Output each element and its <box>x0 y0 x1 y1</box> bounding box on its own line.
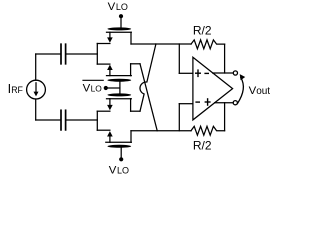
terminal output bottom <box>233 101 237 105</box>
wire top rail (M1 drain to R/2) <box>131 43 191 45</box>
wire output top <box>213 72 234 74</box>
arrow Vout (curved) <box>237 78 243 104</box>
svg-text:V: V <box>83 83 91 95</box>
op-amp U1 (differential) <box>193 57 233 120</box>
transistor M4 (bottom switch, gate to VLO) <box>97 130 131 148</box>
wire IRF bottom <box>35 99 37 120</box>
transistor M1 (top switch, gate to VLO) <box>97 27 131 44</box>
svg-text:R/2: R/2 <box>193 138 212 152</box>
wire IRF to cap C1 <box>36 53 60 55</box>
overline of VLO-bar <box>83 79 103 81</box>
wire bottom rail (M4 drain to R/2) <box>131 130 191 132</box>
resistor R/2 top <box>191 40 225 49</box>
wire M4 gate to VLO bottom <box>120 148 122 159</box>
current source IRF <box>27 80 46 99</box>
wire IRF top <box>35 54 37 80</box>
svg-text:R/2: R/2 <box>193 23 212 37</box>
transistor M2 (upper middle switch, gate to VLO-bar) <box>97 64 140 82</box>
wire bottom rail tap to op-amp input <box>178 104 180 131</box>
svg-text:V: V <box>109 165 117 177</box>
svg-text:V: V <box>108 1 116 13</box>
node VLO top junction dot <box>119 14 123 18</box>
wire diagonal M3 drain to top rail (with hop) <box>140 44 156 111</box>
wire bottom tee (RF- node) <box>96 111 98 130</box>
capacitor C1 (top) <box>61 44 66 64</box>
wire R/2 bottom to output <box>224 103 226 131</box>
capacitor C2 (bottom) <box>61 110 66 130</box>
svg-text:LO: LO <box>91 84 103 94</box>
node VLO top label <box>108 1 128 13</box>
wire VLO-bar to gates <box>106 87 120 89</box>
wire top rail tap to op-amp input <box>178 44 180 73</box>
wire R/2 top to output <box>224 44 226 73</box>
label Vout <box>249 85 271 97</box>
resistor R/2 bottom <box>191 126 225 135</box>
wire IRF to cap C2 <box>36 119 60 121</box>
wire op-amp input top <box>179 72 193 74</box>
svg-text:RF: RF <box>11 85 23 95</box>
svg-text:LO: LO <box>117 166 129 176</box>
node VLO bottom label <box>109 165 129 177</box>
node VLO-bar label <box>83 83 103 95</box>
wire op-amp input bottom <box>179 103 193 105</box>
transistor M3 (lower middle switch, gate to VLO-bar) <box>97 93 140 111</box>
svg-text:LO: LO <box>116 2 128 12</box>
wire cap C1 to tee <box>66 53 97 55</box>
terminal output top <box>233 71 237 75</box>
wire diagonal M2 drain to bottom rail <box>140 64 157 131</box>
wire between M2 and M3 gates <box>119 82 121 94</box>
wire output bottom <box>215 102 233 104</box>
svg-text:out: out <box>256 86 270 97</box>
wire cap C2 to tee <box>66 119 97 121</box>
node VLO bottom junction dot <box>119 157 123 161</box>
node VLO-bar junction dot <box>104 86 108 90</box>
current source IRF label <box>8 82 24 96</box>
wire top tee (RF+ node) <box>96 44 98 65</box>
wire VLO top to M1 gate <box>120 16 122 27</box>
